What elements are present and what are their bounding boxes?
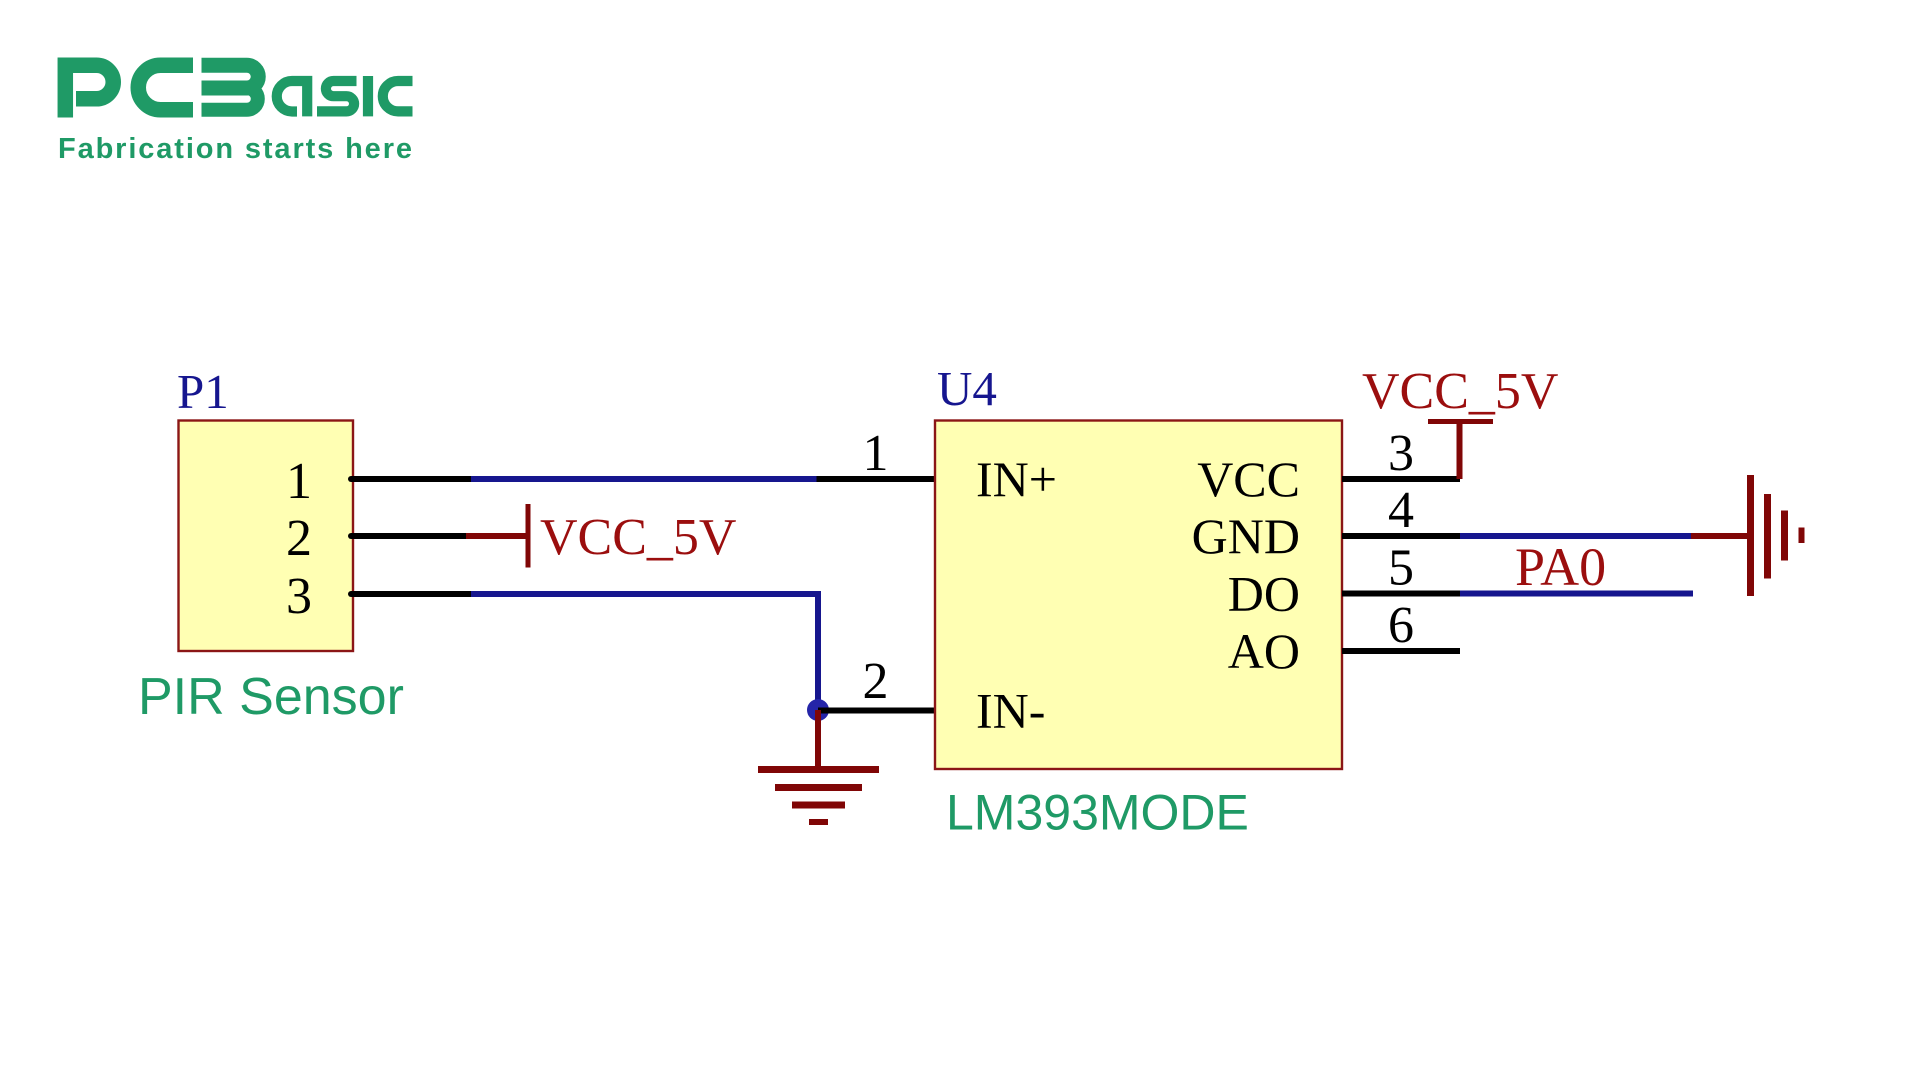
wire U4.5 (DO) black segment (1342, 591, 1460, 597)
svg-text:U4: U4 (937, 361, 997, 416)
IC U4 (935, 421, 1342, 770)
svg-text:2: 2 (863, 653, 889, 710)
wire U4.6 (AO) black segment (1342, 648, 1460, 654)
wire U4.4 blue segment (1460, 533, 1691, 539)
ground bar 2 (775, 784, 862, 791)
wire U4.3 (VCC) black segment (1342, 476, 1460, 482)
right ground bar 3 (1781, 511, 1788, 561)
svg-text:P1: P1 (177, 364, 229, 419)
svg-text:4: 4 (1388, 482, 1414, 539)
svg-text:PA0: PA0 (1515, 537, 1606, 597)
svg-text:GND: GND (1192, 508, 1300, 564)
svg-text:6: 6 (1388, 597, 1414, 654)
junction node (807, 699, 829, 721)
svg-text:VCC_5V: VCC_5V (540, 509, 736, 566)
right ground bar 1 (1747, 475, 1754, 596)
wire P1.1 to U4.1 blue segment (471, 476, 817, 482)
wire P1.2 black segment (351, 533, 466, 539)
svg-text:VCC: VCC (1197, 451, 1300, 507)
svg-text:VCC_5V: VCC_5V (1362, 363, 1558, 420)
power port VCC_5V bar (1428, 419, 1493, 424)
wire P1.1 to U4.1 black right segment (pin 1 of U4) (817, 476, 936, 482)
power port VCC_5V stem (1457, 421, 1463, 479)
ground bar 4 (809, 819, 828, 825)
right ground bar 2 (1764, 494, 1771, 579)
wire U4.5 blue segment (1460, 591, 1693, 597)
svg-text:IN-: IN- (976, 683, 1045, 739)
svg-text:5: 5 (1388, 540, 1414, 597)
logo PCBasic (65, 65, 412, 117)
power port VCC_5V bar at P1.2 (526, 504, 531, 568)
svg-text:AO: AO (1228, 623, 1300, 679)
svg-text:Fabrication starts here: Fabrication starts here (58, 133, 412, 165)
wire U4.4 (GND) black segment (1342, 533, 1460, 539)
wire P1.3 blue horizontal segment (471, 591, 818, 597)
wire U4.4 red segment to ground (1691, 533, 1748, 539)
svg-text:1: 1 (863, 425, 889, 482)
svg-text:3: 3 (286, 568, 312, 625)
svg-text:PIR Sensor: PIR Sensor (138, 668, 404, 726)
wire P1.2 red segment (466, 533, 526, 539)
connector P1 (179, 421, 354, 652)
ground bar 1 (758, 766, 879, 773)
right ground bar 4 (1799, 528, 1805, 544)
wire junction to U4 IN- (pin 2 of U4) (818, 708, 935, 714)
wire blue vertical segment down to junction (815, 591, 821, 710)
svg-text:DO: DO (1228, 566, 1300, 622)
svg-text:2: 2 (286, 510, 312, 567)
svg-text:LM393MODE: LM393MODE (946, 785, 1249, 841)
wire P1.1 to U4.1 black left segment (351, 476, 471, 482)
svg-text:1: 1 (286, 453, 312, 510)
wire P1.3 black segment (351, 591, 471, 597)
svg-text:IN+: IN+ (976, 451, 1057, 507)
svg-text:3: 3 (1388, 425, 1414, 482)
ground bar 3 (792, 802, 845, 809)
ground stem at junction (815, 710, 821, 770)
